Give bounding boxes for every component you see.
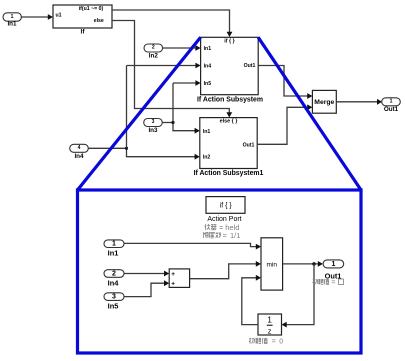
svg-text:=: = <box>272 339 276 346</box>
wire In4 net to subsystem1 In4 and subsystem2 In2 <box>88 63 200 160</box>
svg-text:1/1: 1/1 <box>230 231 240 240</box>
svg-text:3: 3 <box>152 119 155 125</box>
svg-text:u1: u1 <box>56 12 62 18</box>
svg-text:In5: In5 <box>204 81 212 87</box>
svg-text:min: min <box>267 261 278 268</box>
min block (MinMax) <box>261 238 283 290</box>
input port In1 (inner) <box>104 240 124 258</box>
svg-text:1: 1 <box>11 14 14 20</box>
output port Out1 (inner) <box>323 260 344 280</box>
wire if-output to subsystem1 top <box>112 10 232 37</box>
svg-text:In4: In4 <box>108 278 120 287</box>
wire subsystem1 Out1 to Merge input1 <box>258 66 312 99</box>
input port In3 <box>144 119 163 135</box>
svg-text:2: 2 <box>112 270 116 277</box>
svg-text:If Action Subsystem1: If Action Subsystem1 <box>194 170 264 177</box>
svg-text:z: z <box>268 327 272 336</box>
annotation shokichi = [] under Out1 (gray) <box>313 279 330 284</box>
unit delay block 1/z <box>258 314 282 336</box>
svg-text:In1: In1 <box>108 248 119 257</box>
zoom callout left diagonal <box>78 37 201 190</box>
input port In2 <box>144 44 163 60</box>
svg-text:3: 3 <box>112 294 116 301</box>
svg-text:else: else <box>94 18 104 24</box>
svg-text:4: 4 <box>78 145 81 151</box>
svg-text:In1: In1 <box>7 20 17 27</box>
zoom callout blue rectangle <box>78 190 362 353</box>
input port In1 <box>3 13 21 28</box>
wire Merge to Out1 <box>336 99 382 105</box>
wire In3 net to subsystem1 In5 and subsystem2 In1 <box>162 80 200 133</box>
wire unit delay output to min input3 <box>242 275 261 325</box>
svg-text:Merge: Merge <box>314 99 334 106</box>
svg-text:=: = <box>331 280 335 287</box>
svg-text:In5: In5 <box>108 302 119 311</box>
svg-text:+: + <box>171 271 175 278</box>
svg-text:1: 1 <box>332 261 336 268</box>
svg-text:In1: In1 <box>204 46 212 52</box>
action port block if { } <box>206 197 245 223</box>
svg-text:In3: In3 <box>148 127 158 134</box>
sum block <box>169 269 189 288</box>
svg-text:if { }: if { } <box>220 202 233 209</box>
input port In4 (inner) <box>104 270 124 288</box>
wire In2 to subsystem1 In1 <box>163 45 201 51</box>
svg-text:In2: In2 <box>149 53 159 60</box>
wire sum to min input2 <box>190 261 261 279</box>
If block <box>53 5 112 35</box>
svg-text:if { }: if { } <box>224 38 235 44</box>
wire subsystem2 Out1 to Merge input2 <box>257 104 312 144</box>
wire inner In1 to min input1 <box>124 243 261 249</box>
svg-text:else { }: else { } <box>220 119 239 125</box>
output port Out1 <box>382 98 401 113</box>
subsystem block IF Action Subsystem1 <box>194 118 264 177</box>
wire feedback min output down to unit delay input <box>282 264 315 328</box>
svg-text:In2: In2 <box>203 155 211 161</box>
svg-text:0: 0 <box>279 339 283 346</box>
wire inner In5 to sum input2 <box>124 280 169 296</box>
wire In1 to If block u1 <box>21 14 53 20</box>
svg-text:Out1: Out1 <box>384 106 399 113</box>
svg-text:In4: In4 <box>74 153 84 160</box>
annotation shokichi = 0 under unit delay (gray) <box>249 338 268 344</box>
wire else-output to subsystem2 top <box>112 21 232 118</box>
subsystem block IF Action Subsystem <box>197 37 263 103</box>
svg-text:In4: In4 <box>204 63 212 69</box>
svg-text:In1: In1 <box>203 129 211 135</box>
svg-text:2: 2 <box>152 45 155 51</box>
svg-text:+: + <box>171 281 175 288</box>
annotation joutai = held (gray) <box>205 224 217 230</box>
annotation kaisousuu = 1/1 (gray) <box>204 232 221 238</box>
svg-text:If Action Subsystem: If Action Subsystem <box>197 96 263 103</box>
Merge block <box>312 90 336 113</box>
wire inner In4 to sum input1 <box>124 271 169 277</box>
wire min output to Out1 with junction <box>283 261 323 267</box>
svg-text:Out1: Out1 <box>244 63 256 69</box>
svg-text:Out1: Out1 <box>243 142 255 148</box>
zoom callout right diagonal <box>258 37 361 190</box>
svg-text:1: 1 <box>267 316 272 325</box>
svg-text:=: = <box>223 231 227 240</box>
svg-text:1: 1 <box>390 99 393 105</box>
input port In4 <box>70 144 89 160</box>
svg-text:1: 1 <box>112 240 116 247</box>
input port In5 (inner) <box>104 293 124 311</box>
svg-text:if(u1 ~= 0): if(u1 ~= 0) <box>79 6 104 12</box>
